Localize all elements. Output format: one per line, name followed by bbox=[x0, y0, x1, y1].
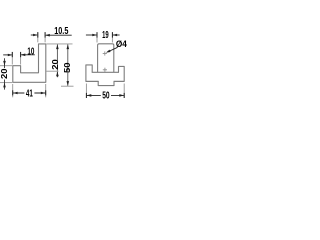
dim 41 (bottom, total depth) bbox=[13, 84, 46, 99]
svg-text:10: 10 bbox=[27, 46, 34, 57]
hook profile outline bbox=[13, 44, 46, 82]
arm-top extension bbox=[46, 70, 58, 72]
dim 10.5 (plate thickness, top) bbox=[31, 26, 72, 42]
hole cross upper bbox=[103, 51, 107, 55]
svg-text:19: 19 bbox=[102, 30, 109, 41]
svg-text:20: 20 bbox=[0, 68, 9, 79]
ticks dark bbox=[37, 32, 39, 37]
svg-text:41: 41 bbox=[26, 88, 33, 99]
ledge bottom segments bbox=[86, 80, 99, 82]
plate front bbox=[98, 44, 114, 73]
right line with arrow pointing left bbox=[46, 34, 72, 36]
dim 50 vertical (overall height) bbox=[61, 44, 74, 86]
dim 20 right (plate top to arm top) bbox=[46, 44, 72, 77]
plate-top extension line shared bbox=[47, 43, 73, 45]
svg-text:50: 50 bbox=[62, 62, 72, 73]
svg-text:10.5: 10.5 bbox=[54, 26, 69, 37]
dim 19 (plate width, top) bbox=[86, 30, 120, 42]
label Ø4 with leader bbox=[106, 39, 127, 53]
svg-text:20: 20 bbox=[50, 59, 60, 70]
dim 10 (lip width) bbox=[3, 46, 35, 64]
ledge top line through bbox=[92, 71, 119, 73]
dim 20 left (lip height) bbox=[0, 58, 12, 89]
left arrow pointing right bbox=[31, 34, 37, 36]
ext lines bbox=[37, 32, 39, 42]
hole cross lower bbox=[103, 68, 107, 72]
ledge with lips bbox=[86, 65, 124, 86]
svg-text:50: 50 bbox=[102, 91, 110, 102]
svg-text:Ø4: Ø4 bbox=[116, 39, 127, 49]
dim 50 bottom (ledge width) bbox=[86, 84, 124, 102]
